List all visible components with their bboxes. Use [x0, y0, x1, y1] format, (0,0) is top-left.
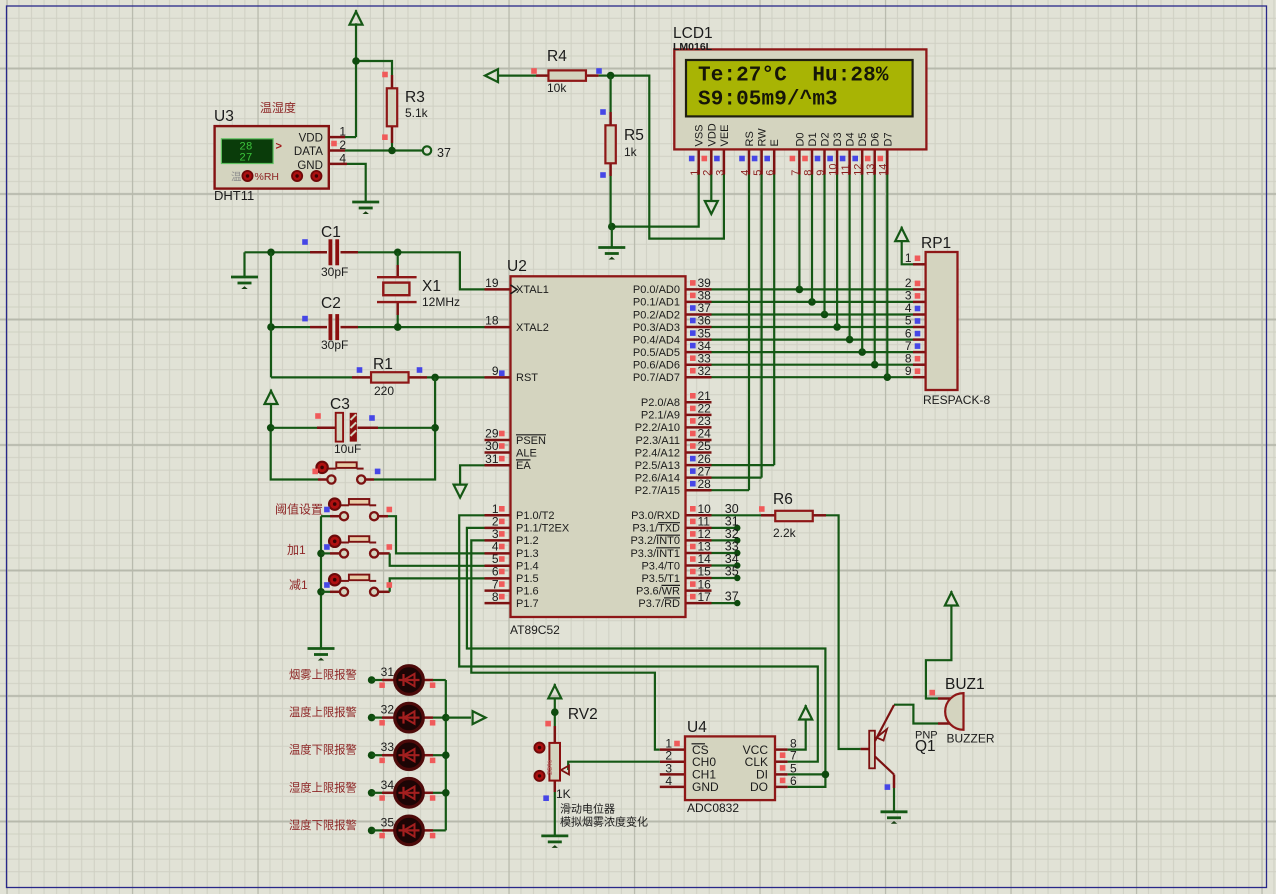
svg-text:D3: D3	[832, 132, 844, 146]
svg-text:R5: R5	[624, 127, 644, 144]
svg-text:35: 35	[725, 565, 739, 579]
svg-text:D5: D5	[857, 132, 869, 146]
svg-text:D1: D1	[807, 132, 819, 146]
svg-text:XTAL2: XTAL2	[516, 322, 549, 334]
svg-text:C1: C1	[321, 224, 341, 241]
svg-text:C2: C2	[321, 295, 341, 312]
svg-text:LCD1: LCD1	[673, 25, 713, 42]
svg-text:25%: 25%	[545, 760, 554, 775]
svg-text:RST: RST	[516, 372, 538, 384]
svg-text:湿度上限报警: 湿度上限报警	[289, 780, 357, 794]
svg-text:Q1: Q1	[915, 738, 936, 755]
svg-text:P1.5: P1.5	[516, 573, 539, 585]
svg-text:P3.2/INT0: P3.2/INT0	[630, 535, 680, 547]
svg-text:湿度下限报警: 湿度下限报警	[289, 818, 357, 832]
svg-text:D6: D6	[870, 132, 882, 146]
svg-text:U4: U4	[687, 719, 707, 736]
svg-text:5: 5	[752, 170, 764, 176]
svg-text:VDD: VDD	[299, 133, 323, 145]
svg-text:P0.3/AD3: P0.3/AD3	[633, 322, 680, 334]
svg-text:BUZZER: BUZZER	[947, 732, 995, 746]
svg-text:P1.4: P1.4	[516, 560, 539, 572]
svg-text:P2.6/A14: P2.6/A14	[635, 472, 680, 484]
svg-text:34: 34	[381, 778, 395, 792]
svg-text:P3.5/T1: P3.5/T1	[641, 573, 680, 585]
svg-text:C3: C3	[330, 396, 350, 413]
svg-text:温湿度: 温湿度	[260, 100, 296, 115]
svg-text:ALE: ALE	[516, 447, 537, 459]
svg-text:VDD: VDD	[706, 123, 718, 146]
svg-text:P1.2: P1.2	[516, 535, 539, 547]
svg-text:10k: 10k	[547, 81, 567, 95]
svg-text:P2.7/A15: P2.7/A15	[635, 485, 680, 497]
svg-text:9: 9	[815, 170, 827, 176]
svg-text:4: 4	[739, 170, 751, 176]
svg-text:P0.7/AD7: P0.7/AD7	[633, 372, 680, 384]
svg-text:DATA: DATA	[294, 146, 323, 158]
svg-text:8: 8	[492, 590, 499, 604]
svg-text:17: 17	[698, 590, 712, 604]
svg-text:P1.0/T2: P1.0/T2	[516, 510, 555, 522]
svg-text:D2: D2	[820, 132, 832, 146]
svg-text:温度下限报警: 温度下限报警	[289, 743, 357, 757]
svg-text:X1: X1	[422, 278, 441, 295]
svg-text:XTAL1: XTAL1	[516, 284, 549, 296]
svg-text:模拟烟雾浓度变化: 模拟烟雾浓度变化	[560, 815, 648, 829]
svg-text:DHT11: DHT11	[214, 188, 254, 203]
svg-text:7: 7	[790, 170, 802, 176]
svg-text:U3: U3	[214, 108, 234, 125]
svg-text:LM016L: LM016L	[673, 41, 713, 53]
svg-text:33: 33	[381, 740, 395, 754]
svg-text:6: 6	[765, 170, 777, 176]
svg-text:1: 1	[689, 170, 701, 176]
svg-text:加1: 加1	[287, 543, 306, 557]
svg-text:32: 32	[381, 703, 395, 717]
svg-text:RW: RW	[757, 128, 769, 147]
svg-text:P2.2/A10: P2.2/A10	[635, 422, 680, 434]
svg-text:GND: GND	[692, 780, 719, 794]
svg-text:R3: R3	[405, 89, 425, 106]
svg-text:P0.5/AD5: P0.5/AD5	[633, 347, 680, 359]
svg-text:DO: DO	[750, 780, 768, 794]
svg-text:EA: EA	[516, 460, 531, 472]
svg-text:1: 1	[339, 125, 346, 139]
svg-text:RP1: RP1	[921, 235, 951, 252]
svg-text:VEE: VEE	[719, 124, 731, 146]
svg-text:烟雾上限报警: 烟雾上限报警	[289, 668, 357, 682]
svg-text:1k: 1k	[624, 145, 638, 159]
svg-text:19: 19	[485, 276, 499, 290]
svg-text:RS: RS	[744, 131, 756, 146]
svg-text:28: 28	[698, 477, 712, 491]
svg-text:P1.6: P1.6	[516, 585, 539, 597]
svg-text:RESPACK-8: RESPACK-8	[923, 393, 990, 407]
svg-text:D4: D4	[845, 132, 857, 146]
svg-text:P3.4/T0: P3.4/T0	[641, 560, 680, 572]
svg-text:18: 18	[485, 314, 499, 328]
svg-text:5.1k: 5.1k	[405, 106, 429, 120]
svg-text:P3.0/RXD: P3.0/RXD	[631, 510, 680, 522]
svg-text:P0.6/AD6: P0.6/AD6	[633, 360, 680, 372]
svg-text:E: E	[769, 139, 781, 146]
svg-text:P3.6/WR: P3.6/WR	[636, 585, 680, 597]
svg-text:P1.1/T2EX: P1.1/T2EX	[516, 523, 570, 535]
svg-text:4: 4	[665, 774, 672, 788]
svg-text:P3.1/TXD: P3.1/TXD	[632, 523, 680, 535]
svg-text:1K: 1K	[556, 787, 571, 801]
svg-text:减1: 减1	[289, 578, 308, 592]
svg-text:13: 13	[865, 164, 877, 176]
svg-text:R1: R1	[373, 356, 393, 373]
svg-text:4: 4	[339, 151, 346, 165]
svg-text:阈值设置: 阈值设置	[275, 502, 323, 517]
svg-text:P2.0/A8: P2.0/A8	[641, 397, 680, 409]
svg-text:12MHz: 12MHz	[422, 295, 460, 309]
svg-text:S9:05m9/^m3: S9:05m9/^m3	[698, 89, 838, 112]
svg-text:2: 2	[339, 138, 346, 152]
svg-text:P0.0/AD0: P0.0/AD0	[633, 284, 680, 296]
svg-text:14: 14	[878, 164, 890, 176]
svg-text:ADC0832: ADC0832	[687, 801, 739, 815]
svg-text:37: 37	[725, 590, 739, 604]
svg-text:GND: GND	[297, 160, 323, 172]
svg-text:P3.3/INT1: P3.3/INT1	[630, 548, 680, 560]
svg-text:VSS: VSS	[694, 124, 706, 146]
svg-text:P2.1/A9: P2.1/A9	[641, 410, 680, 422]
svg-text:P3.7/RD: P3.7/RD	[638, 598, 680, 610]
svg-text:R4: R4	[547, 48, 567, 65]
svg-text:32: 32	[698, 364, 712, 378]
svg-text:RV2: RV2	[568, 706, 598, 723]
svg-text:%RH: %RH	[255, 171, 280, 183]
svg-text:P2.5/A13: P2.5/A13	[635, 460, 680, 472]
svg-text:BUZ1: BUZ1	[945, 676, 985, 693]
svg-text:10uF: 10uF	[334, 442, 361, 456]
svg-text:27: 27	[239, 153, 252, 165]
svg-text:P1.7: P1.7	[516, 598, 539, 610]
svg-text:31: 31	[485, 452, 499, 466]
svg-text:温: 温	[231, 171, 242, 183]
svg-text:30pF: 30pF	[321, 265, 348, 279]
svg-text:U2: U2	[507, 258, 527, 275]
svg-text:P0.2/AD2: P0.2/AD2	[633, 309, 680, 321]
svg-text:温度上限报警: 温度上限报警	[289, 705, 357, 719]
svg-text:D7: D7	[882, 132, 894, 146]
svg-text:11: 11	[840, 164, 852, 175]
svg-text:35: 35	[381, 815, 395, 829]
svg-text:9: 9	[905, 364, 912, 378]
svg-text:P2.4/A12: P2.4/A12	[635, 447, 680, 459]
svg-text:AT89C52: AT89C52	[510, 623, 560, 637]
svg-text:>: >	[276, 141, 282, 153]
svg-text:31: 31	[381, 665, 395, 679]
svg-text:P0.1/AD1: P0.1/AD1	[633, 297, 680, 309]
svg-text:2.2k: 2.2k	[773, 526, 797, 540]
svg-text:30pF: 30pF	[321, 338, 348, 352]
svg-text:P0.4/AD4: P0.4/AD4	[633, 334, 680, 346]
svg-text:10: 10	[828, 164, 840, 176]
svg-text:9: 9	[492, 364, 499, 378]
svg-text:R6: R6	[773, 491, 793, 508]
svg-text:P1.3: P1.3	[516, 548, 539, 560]
svg-text:8: 8	[802, 170, 814, 176]
svg-text:220: 220	[374, 384, 394, 398]
svg-text:PSEN: PSEN	[516, 435, 546, 447]
svg-text:6: 6	[790, 774, 797, 788]
svg-text:37: 37	[437, 146, 451, 160]
svg-text:Te:27°C Hu:28%: Te:27°C Hu:28%	[698, 65, 889, 88]
svg-text:3: 3	[714, 170, 726, 176]
svg-text:D0: D0	[794, 132, 806, 146]
svg-text:P2.3/A11: P2.3/A11	[636, 435, 680, 447]
svg-text:12: 12	[853, 164, 865, 176]
svg-text:2: 2	[702, 170, 714, 176]
svg-text:1: 1	[905, 251, 912, 265]
svg-text:滑动电位器: 滑动电位器	[560, 802, 615, 816]
